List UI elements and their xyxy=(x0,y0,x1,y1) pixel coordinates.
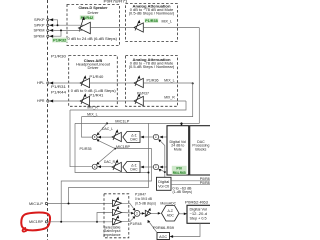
svg-text:ADC: ADC xyxy=(167,214,175,218)
svg-text:SPKP: SPKP xyxy=(34,18,45,22)
svg-text:Impedance: Impedance xyxy=(104,233,121,237)
sum circle right R xyxy=(153,164,158,169)
svg-text:R64-R65: R64-R65 xyxy=(173,171,186,175)
HPR driver triangle xyxy=(80,96,90,105)
svg-text:P1/R48: P1/R48 xyxy=(130,222,142,226)
AGC box xyxy=(157,233,170,240)
svg-text:MIC1RP: MIC1RP xyxy=(116,145,131,149)
svg-text:HPR: HPR xyxy=(37,99,45,103)
svg-text:P1/R31: P1/R31 xyxy=(51,85,66,89)
svg-text:Σ: Σ xyxy=(94,135,96,139)
svg-text:Class-D Speaker: Class-D Speaker xyxy=(79,6,109,10)
svg-text:MIX_L: MIX_L xyxy=(164,79,175,83)
ADC sum circle xyxy=(134,211,140,217)
svg-text:−12..20-d: −12..20-d xyxy=(190,212,208,216)
svg-text:Vol Ctl: Vol Ctl xyxy=(158,184,169,188)
svg-text:P1/R32: P1/R32 xyxy=(53,39,66,43)
pin SPKP 2 xyxy=(47,24,49,26)
svg-text:P1/R40: P1/R40 xyxy=(89,75,103,79)
svg-text:Σ: Σ xyxy=(136,212,138,216)
pin SPKM 2 xyxy=(47,35,49,37)
mic amp triangles xyxy=(113,200,122,206)
HPR pin xyxy=(47,100,49,102)
Digital Vol box 2 xyxy=(187,205,214,223)
svg-text:MonoADC: MonoADC xyxy=(160,202,176,206)
diagonal MIC1LP bus to DAC_L sum xyxy=(106,122,108,124)
svg-text:MIX_R: MIX_R xyxy=(87,106,98,110)
DAC hexagon L xyxy=(123,132,140,143)
HP wires xyxy=(53,82,80,84)
Analog Attenuation box (top) xyxy=(126,4,178,42)
svg-text:P1/R41: P1/R41 xyxy=(89,94,103,98)
class-D amp triangle xyxy=(79,22,91,33)
ADC amp triangle xyxy=(140,212,145,214)
svg-text:(0.5-dB Steps / Nonlinear): (0.5-dB Steps / Nonlinear) xyxy=(129,11,175,15)
svg-text:P0R62-R63: P0R62-R63 xyxy=(185,200,208,204)
pin SPKP 1 xyxy=(47,19,49,21)
green label P1/R38 xyxy=(145,18,159,23)
sum circle DAC_L left xyxy=(92,135,97,140)
mic selectable box xyxy=(104,194,129,238)
svg-text:Driver: Driver xyxy=(88,66,100,70)
wires between boxes 3 and 4 xyxy=(90,82,135,84)
svg-text:P1/R30: P1/R30 xyxy=(51,55,66,59)
speaker wires xyxy=(53,20,57,25)
MIC1LP riser right xyxy=(69,123,149,203)
attenuator triangle MIX_R xyxy=(134,96,143,105)
svg-text:DAC: DAC xyxy=(130,138,138,142)
svg-text:(0.5-dB Steps / Nonlinear): (0.5-dB Steps / Nonlinear) xyxy=(129,65,175,69)
MIC1LP bus xyxy=(181,122,183,124)
wire DAC_L to sum xyxy=(101,136,112,138)
ADC hexagon xyxy=(162,206,180,222)
svg-text:Mute: Mute xyxy=(174,148,182,152)
svg-text:Σ: Σ xyxy=(155,135,157,139)
X cross diagonals from MIC1RP node xyxy=(114,148,116,150)
Digital Vol Ctl box xyxy=(157,177,172,190)
mic outputs to ADC sum xyxy=(122,203,135,209)
svg-text:P1/R36: P1/R36 xyxy=(147,79,159,83)
green label P1/R42 xyxy=(80,15,94,20)
svg-text:P0R66-R59: P0R66-R59 xyxy=(153,226,174,230)
svg-text:(0.5-dB steps): (0.5-dB steps) xyxy=(135,202,156,206)
svg-text:MIX_L: MIX_L xyxy=(162,20,173,24)
attenuator triangle MIX_L xyxy=(134,78,143,87)
chip boundary dashed line xyxy=(47,0,49,240)
svg-text:MIC1LP: MIC1LP xyxy=(29,202,44,206)
DAC hexagon R xyxy=(123,162,140,173)
wire MIX_L top to right vertical xyxy=(143,27,199,29)
svg-text:SPKP: SPKP xyxy=(34,23,45,27)
red annotation circle xyxy=(21,213,50,231)
svg-text:Σ: Σ xyxy=(155,165,157,169)
wire hexagon to digital vol 2 xyxy=(179,213,184,215)
svg-text:Digital Vol: Digital Vol xyxy=(190,207,208,211)
svg-text:0 dB to 24 dB (6-dB Steps): 0 dB to 24 dB (6-dB Steps) xyxy=(68,37,118,41)
right verticals xyxy=(75,28,199,124)
Class-D Speaker Driver box xyxy=(67,5,120,46)
svg-text:HPL: HPL xyxy=(37,81,45,85)
beep riser xyxy=(164,146,166,178)
svg-text:DAC_L: DAC_L xyxy=(102,127,113,131)
Analog Attenuation box (bottom) xyxy=(126,56,178,107)
green label P1/R32 xyxy=(52,38,68,43)
svg-text:SPKM: SPKM xyxy=(34,34,45,38)
wire MIX_R mid to right xyxy=(143,100,186,102)
MIC1RP route xyxy=(61,149,151,222)
Digital Vol box xyxy=(167,126,189,175)
attenuator triangle top xyxy=(134,23,143,32)
svg-text:P1/R35: P1/R35 xyxy=(80,147,92,151)
left risers xyxy=(70,110,92,167)
svg-text:MIX_L: MIX_L xyxy=(87,112,98,116)
DAC Processing Blocks box xyxy=(190,126,215,175)
svg-text:DAC_R: DAC_R xyxy=(104,160,115,164)
svg-text:P1/R44: P1/R44 xyxy=(51,91,66,95)
svg-text:Blocks: Blocks xyxy=(195,148,206,152)
svg-text:DAC: DAC xyxy=(130,168,138,172)
wire into ADC hexagon xyxy=(151,212,158,214)
svg-text:P0R78/R71: P0R78/R71 xyxy=(104,0,128,3)
svg-text:AGC: AGC xyxy=(159,235,167,239)
pin SPKM 1 xyxy=(47,29,49,31)
wire MIX_L mid to right xyxy=(143,82,192,84)
svg-text:MIX_R: MIX_R xyxy=(164,95,175,99)
svg-text:Σ: Σ xyxy=(94,165,96,169)
svg-text:Step + 0.5: Step + 0.5 xyxy=(190,216,207,220)
beep wires right xyxy=(171,180,210,182)
wire attenuator to class-D xyxy=(90,27,134,29)
HPL pin xyxy=(47,82,49,84)
mic wires xyxy=(48,203,113,205)
HPL driver triangle xyxy=(80,78,90,87)
Class A/B box xyxy=(69,56,118,107)
svg-text:(1-dB Steps): (1-dB Steps) xyxy=(173,190,193,194)
svg-text:Δ-Σ: Δ-Σ xyxy=(168,209,174,213)
sum circle right L xyxy=(153,134,158,139)
sum circle DAC_R left xyxy=(92,164,97,169)
svg-text:P0/R8: P0/R8 xyxy=(200,181,210,185)
wire sum right to DAC L xyxy=(144,136,153,138)
svg-text:Driver: Driver xyxy=(88,11,100,15)
MIC pins xyxy=(45,202,47,204)
arrows from Digital Vol into right sums xyxy=(163,136,167,138)
svg-text:Digital: Digital xyxy=(158,180,169,184)
svg-text:0 to 59.5 dB: 0 to 59.5 dB xyxy=(135,197,153,201)
svg-text:MIC1LP: MIC1LP xyxy=(115,119,130,123)
AGC wires xyxy=(173,223,200,236)
svg-text:MIC1RP: MIC1RP xyxy=(29,220,44,224)
svg-text:0 dB to 9 dB (1-dB Steps): 0 dB to 9 dB (1-dB Steps) xyxy=(71,89,116,93)
svg-text:P1/R38: P1/R38 xyxy=(145,19,158,23)
svg-text:SPKM: SPKM xyxy=(34,29,45,33)
